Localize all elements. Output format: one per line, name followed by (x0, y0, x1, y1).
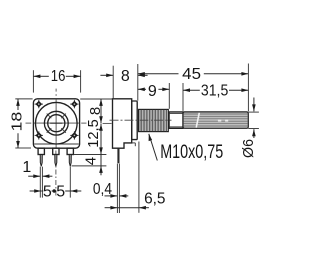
outer circle (36, 102, 78, 144)
rivet top-left (35, 100, 43, 108)
dim 1 extension lines (39, 167, 41, 198)
front view body (33, 99, 79, 148)
dim 31,5 extension lines (182, 83, 184, 111)
pin 2 front (53, 148, 59, 166)
dim 12,5 right (85, 119, 103, 154)
shaft plain section (169, 112, 183, 128)
dim 9 (138, 83, 170, 100)
dim 9 extension lines (168, 83, 170, 109)
shaft knurled section (183, 112, 248, 128)
rivet bottom-left (35, 131, 43, 139)
svg-text:M10x0,75: M10x0,75 (160, 142, 223, 163)
side body step ledge (132, 142, 136, 144)
dim 0,4 extension lines (116, 164, 118, 213)
front view horizontal centerline (26, 122, 112, 124)
dim 18 extension lines (15, 98, 32, 100)
middle ring (44, 111, 68, 135)
rivet top-right (70, 100, 78, 108)
flange (132, 101, 138, 140)
dim 31,5 (183, 83, 248, 100)
dim diameter 6 (240, 98, 257, 158)
svg-text:8: 8 (87, 107, 104, 115)
front body bottom seam (34, 143, 79, 145)
svg-text:5: 5 (43, 184, 52, 201)
right column extension lines (80, 98, 112, 100)
dim 8 top extension lines (112, 66, 114, 99)
dim 45 (138, 66, 249, 83)
svg-text:45: 45 (182, 66, 201, 83)
dim diameter 6 extension lines (248, 111, 259, 113)
svg-text:6,5: 6,5 (144, 191, 165, 208)
dim 4 right (82, 154, 102, 175)
svg-text:4: 4 (82, 157, 99, 165)
dim 8 top (100, 68, 147, 85)
dim 6,5 extension line (138, 142, 140, 213)
side view body (113, 99, 132, 148)
dim 18 (8, 99, 25, 148)
dim 16 (33, 68, 80, 85)
rivet bottom-right (70, 131, 78, 139)
svg-text:1: 1 (22, 159, 31, 176)
dim 1 (22, 159, 52, 178)
label M10x0,75 leader (149, 134, 224, 163)
dim 16 extension lines (32, 70, 34, 92)
svg-text:Ø6: Ø6 (240, 139, 257, 158)
dim 5 5 extension line right (69, 167, 71, 198)
svg-text:18: 18 (8, 112, 25, 132)
svg-text:31,5: 31,5 (201, 83, 228, 100)
ring diagonal ticks (47, 114, 66, 133)
pin 3 front (67, 148, 73, 166)
svg-text:16: 16 (51, 68, 66, 85)
svg-text:9: 9 (148, 83, 157, 100)
side view centerline (110, 119, 172, 121)
dim 8 right (87, 99, 104, 123)
side view pin (117, 148, 119, 163)
inner shaft circle (48, 115, 65, 132)
svg-text:8: 8 (121, 68, 130, 85)
svg-text:0,4: 0,4 (93, 181, 112, 198)
front view vertical centerline (55, 89, 57, 197)
pin 1 front (38, 148, 44, 166)
center dash (50, 122, 62, 124)
dim 0,4 (93, 181, 128, 198)
thread M10 (139, 109, 169, 131)
dim 6,5 (105, 191, 166, 210)
svg-text:5: 5 (56, 184, 65, 201)
dim 5 5 (30, 184, 82, 201)
svg-text:12,5: 12,5 (85, 119, 102, 147)
